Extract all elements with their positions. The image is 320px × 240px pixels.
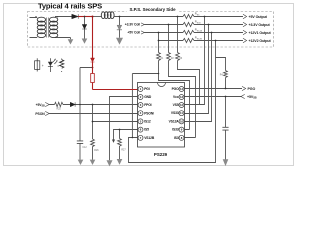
svg-text:10: 10 xyxy=(180,119,184,123)
svg-text:13: 13 xyxy=(180,95,184,99)
svg-text:FPOI: FPOI xyxy=(144,103,151,107)
svg-text:VS33: VS33 xyxy=(171,111,179,115)
svg-text:+5V Coil: +5V Coil xyxy=(127,31,140,35)
svg-text:PGO: PGO xyxy=(172,87,180,91)
svg-text:+3.3V Coil: +3.3V Coil xyxy=(125,23,140,27)
svg-text:C12: C12 xyxy=(82,147,87,149)
svg-text:GND: GND xyxy=(144,95,152,99)
svg-text:VS5: VS5 xyxy=(173,103,179,107)
svg-text:VS12A: VS12A xyxy=(169,119,180,123)
svg-text:IS12: IS12 xyxy=(144,120,151,124)
svg-text:+12V1 Output: +12V1 Output xyxy=(249,31,272,35)
svg-text:+12V2 Output: +12V2 Output xyxy=(249,39,272,43)
svg-text:PGI: PGI xyxy=(144,87,150,91)
svg-text:R26: R26 xyxy=(94,150,99,152)
svg-text:+5VSB: +5VSB xyxy=(36,103,45,108)
svg-text:11: 11 xyxy=(180,111,183,115)
svg-text:IS3: IS3 xyxy=(174,136,179,140)
svg-text:IS5: IS5 xyxy=(144,128,149,132)
svg-text:PSON: PSON xyxy=(35,112,45,116)
svg-text:+5VSB: +5VSB xyxy=(247,95,257,100)
svg-text:Vcc: Vcc xyxy=(173,95,179,99)
svg-text:R27: R27 xyxy=(121,149,126,151)
svg-text:14: 14 xyxy=(180,87,184,91)
svg-text:IS33: IS33 xyxy=(172,128,179,132)
svg-text:S12B: S12B xyxy=(197,38,203,40)
svg-text:PGO: PGO xyxy=(248,87,256,91)
svg-text:PSON/: PSON/ xyxy=(144,111,154,115)
svg-text:VS12B: VS12B xyxy=(144,136,155,140)
svg-text:S.P.S. Secondary Side: S.P.S. Secondary Side xyxy=(129,7,176,12)
svg-text:12: 12 xyxy=(180,103,184,107)
svg-text:+3.3V Output: +3.3V Output xyxy=(249,23,271,27)
svg-text:=: = xyxy=(57,64,59,68)
svg-text:S12A: S12A xyxy=(197,29,203,32)
svg-text:+: + xyxy=(42,64,44,68)
svg-text:PS229: PS229 xyxy=(154,152,168,157)
svg-text:R25: R25 xyxy=(57,109,62,111)
svg-text:+5V Output: +5V Output xyxy=(249,15,268,19)
svg-text:Typical 4 rails SPS: Typical 4 rails SPS xyxy=(38,2,102,11)
